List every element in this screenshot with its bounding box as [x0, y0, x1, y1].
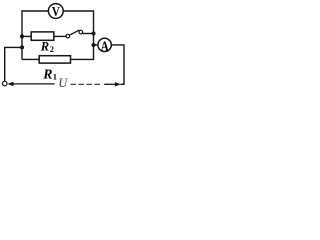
arrowhead: right (points to right wire) — [115, 82, 121, 86]
wire: R1 branch left — [22, 58, 39, 60]
wire: stub at bottom right corner — [121, 83, 125, 85]
wire: R2 to switch — [54, 35, 66, 37]
svg-text:R: R — [40, 40, 49, 54]
resistor R2 — [31, 32, 54, 40]
resistor R1 — [39, 56, 70, 63]
wire: U annotation dashed segment — [71, 83, 103, 85]
label R2 — [40, 40, 54, 55]
svg-text:V: V — [52, 5, 60, 20]
wire: left vertical to bottom terminal — [5, 47, 22, 81]
voltmeter V — [48, 4, 63, 20]
svg-text:R: R — [42, 66, 52, 81]
terminal: left input (open circle) — [2, 81, 7, 86]
wire: top-left horizontal to voltmeter — [22, 11, 49, 60]
svg-text:1: 1 — [53, 71, 57, 81]
svg-text:U: U — [58, 76, 68, 90]
wire: R1 branch right — [71, 58, 95, 60]
junction: terminal branch on left vertical — [20, 45, 24, 49]
wire: R2 branch left — [22, 35, 31, 37]
arrowhead: left (points to left terminal) — [7, 82, 13, 87]
svg-text:A: A — [101, 39, 110, 54]
wire: switch to right vertical — [83, 33, 93, 35]
svg-text:2: 2 — [50, 44, 54, 54]
wire: U annotation solid segment right — [104, 83, 115, 85]
junction: switch-wire on right vertical — [91, 31, 95, 35]
label R1 — [42, 66, 57, 81]
wire: top-right horizontal from voltmeter, down right vertical — [63, 11, 93, 60]
wire: U annotation line left segment — [13, 83, 55, 85]
wire: ammeter to right edge, down to bottom — [112, 45, 124, 84]
junction: ammeter branch on right vertical — [91, 43, 95, 47]
ammeter A — [98, 38, 111, 54]
junction: R2 branch on left vertical — [20, 34, 24, 38]
wire: ammeter branch from right vertical — [94, 44, 99, 46]
switch S — [66, 30, 83, 38]
